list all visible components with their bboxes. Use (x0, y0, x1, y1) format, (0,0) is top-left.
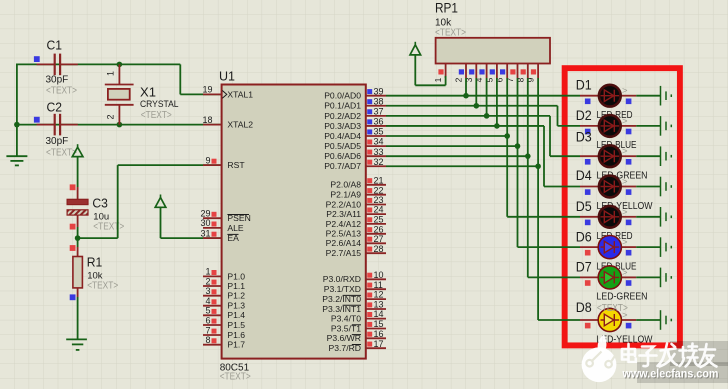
U1 pin 16 (P3.6/WR) (327, 329, 386, 343)
U1 pin 37 (P0.2/AD2) (324, 106, 386, 120)
svg-text:P3.4/T0: P3.4/T0 (331, 314, 361, 324)
U1 pin 36 (P0.3/AD3) (324, 117, 386, 131)
svg-text:P0.6/AD6: P0.6/AD6 (324, 151, 361, 161)
svg-text:X1: X1 (140, 86, 156, 100)
RP1 pin 9 (526, 64, 539, 83)
wire RST net: chip to junction (78, 165, 222, 238)
watermark text dian zi fa shao you (622, 344, 717, 368)
U1 pin 39 (P0.0/AD0) (324, 86, 386, 100)
node RP1-P0.6 junction (525, 153, 531, 159)
microcontroller U1 (80C51) body (222, 85, 366, 359)
power terminal (VCC arrow) at RP1 pin1 (410, 42, 446, 86)
svg-text:<TEXT>: <TEXT> (87, 281, 118, 292)
U1 pin 23 (P2.2/A10) (326, 195, 386, 209)
U1 pin 35 (P0.4/AD4) (324, 127, 386, 141)
svg-text:17: 17 (374, 339, 384, 349)
power terminal (VCC arrow) at EA (155, 195, 221, 239)
U1 pin 7 (P1.6) (203, 325, 245, 340)
ground (below R1) (66, 339, 87, 350)
ground (right of D1) (661, 86, 672, 106)
svg-text:29: 29 (200, 209, 210, 219)
svg-text:30pF: 30pF (46, 75, 69, 86)
svg-text:C1: C1 (47, 39, 63, 53)
U1 pin 25 (P2.4/A12) (326, 215, 386, 229)
svg-text:<TEXT>: <TEXT> (435, 28, 466, 39)
node RP1-P0.5 junction (515, 143, 521, 149)
node left rail C2 junction (14, 122, 20, 128)
wire D2 cathode to ground (636, 125, 660, 127)
svg-text:P2.5/A13: P2.5/A13 (326, 229, 362, 239)
svg-text:P1.0: P1.0 (227, 271, 245, 281)
ground (right of D7) (661, 268, 672, 288)
wire RP1 pin 2 vertical (465, 78, 467, 96)
capacitor C1 (34, 39, 78, 97)
ground (right of D2) (661, 116, 672, 136)
svg-text:26: 26 (374, 224, 384, 234)
svg-text:R1: R1 (87, 256, 103, 270)
wire P0.2 drop to D3 (549, 116, 551, 156)
svg-text:P0.0/AD0: P0.0/AD0 (324, 91, 361, 101)
svg-text:15: 15 (374, 319, 384, 329)
svg-text:>: > (622, 146, 628, 157)
svg-text:16: 16 (374, 329, 384, 339)
ground (right of D4) (661, 177, 672, 197)
svg-text:<TEXT>: <TEXT> (141, 110, 172, 121)
node RP1-P0.4 junction (504, 133, 510, 139)
U1 pin 3 (P1.2) (203, 286, 245, 301)
wire to LED D6 (518, 246, 581, 248)
svg-text:36: 36 (374, 117, 384, 127)
RP1 pin 4 (474, 64, 487, 83)
svg-text:3: 3 (205, 286, 210, 296)
wire RP1 pin 3 vertical (475, 78, 477, 106)
svg-text:P1.6: P1.6 (227, 330, 245, 340)
U1 pin 10 (P3.0/RXD) (323, 270, 386, 284)
svg-text:7: 7 (205, 325, 210, 335)
wire RP1 pin 5 vertical (496, 78, 498, 126)
svg-text:2: 2 (106, 114, 116, 119)
node RP1-P0.2 junction (484, 113, 490, 119)
RP1 pin 8 (515, 64, 528, 83)
svg-text:CRYSTAL: CRYSTAL (140, 99, 179, 110)
led D3 (LED-GREEN) (576, 129, 648, 181)
svg-text:P2.1/A9: P2.1/A9 (330, 190, 361, 200)
svg-text:RST: RST (227, 160, 245, 170)
RP1 pin 2 (454, 64, 467, 83)
svg-text:8: 8 (205, 335, 210, 345)
ground (right of D5) (661, 207, 672, 227)
U1 pin 13 (P3.3/INT1) (322, 300, 386, 314)
svg-text:P1.3: P1.3 (227, 301, 245, 311)
svg-text:D4: D4 (576, 168, 592, 183)
node RP1-P0.1 junction (474, 103, 480, 109)
svg-text:D6: D6 (576, 229, 592, 244)
wire C3 to R1 node (77, 227, 79, 247)
svg-text:P1.4: P1.4 (227, 310, 245, 320)
led D7 (LED-GREEN) (576, 260, 648, 303)
svg-text:25: 25 (374, 215, 384, 225)
svg-text:>: > (622, 207, 628, 218)
svg-text:35: 35 (374, 127, 384, 137)
svg-text:2: 2 (454, 77, 464, 82)
U1 pin 19 (XTAL1) (202, 85, 253, 100)
node RP1-P0.7 junction (535, 163, 541, 169)
U1 pin 9 (RST) (203, 155, 245, 170)
led D1 (LED-RED) (576, 78, 637, 122)
wire RP1 pin 8 vertical (527, 78, 529, 277)
svg-text:P0.3/AD3: P0.3/AD3 (324, 121, 361, 131)
led D2 (LED-BLUE) (576, 108, 637, 151)
power terminal (VCC arrow) above C3 (72, 144, 83, 187)
ground (right of D6) (661, 237, 672, 257)
wire P0.1 drop to D2 (557, 106, 559, 126)
wire RP1 pin 7 vertical (517, 78, 519, 247)
svg-text:30: 30 (200, 218, 210, 228)
U1 pin 38 (P0.1/AD1) (324, 96, 386, 110)
svg-text:XTAL1: XTAL1 (227, 89, 253, 99)
svg-text:30pF: 30pF (46, 136, 69, 147)
led D6 (LED-BLUE) (576, 229, 637, 272)
svg-text:28: 28 (374, 244, 384, 254)
svg-text:>: > (622, 177, 628, 188)
svg-text:C3: C3 (92, 197, 108, 211)
ground (left rail) (6, 156, 27, 165)
svg-text:D1: D1 (576, 78, 592, 93)
U1 pin 32 (P0.7/AD7) (324, 157, 386, 171)
svg-text:C2: C2 (47, 101, 63, 115)
svg-text:www.elecfans.com: www.elecfans.com (622, 367, 719, 381)
svg-text:D8: D8 (576, 300, 592, 315)
wire P0.5 row (386, 145, 518, 147)
svg-text:33: 33 (374, 147, 384, 157)
svg-text:38: 38 (374, 96, 384, 106)
svg-text:11: 11 (374, 280, 383, 290)
wire C1 row / crystal pin1 net (16, 63, 180, 65)
RP1 pin 1 (433, 64, 446, 83)
svg-text:P2.6/A14: P2.6/A14 (326, 238, 362, 248)
svg-text:>: > (622, 86, 628, 97)
wire P0.0 row (386, 95, 580, 97)
svg-text:P1.1: P1.1 (227, 281, 245, 291)
svg-text:14: 14 (374, 309, 384, 319)
svg-text:<TEXT>: <TEXT> (220, 372, 251, 383)
U1 pin 26 (P2.5/A13) (326, 224, 386, 238)
svg-text:XTAL2: XTAL2 (227, 120, 253, 130)
U1 pin 31 (EA) (200, 228, 239, 243)
U1 pin 28 (P2.7/A15) (326, 244, 386, 258)
U1 pin 12 (P3.2/INT0) (322, 290, 386, 304)
svg-text:<TEXT>: <TEXT> (93, 222, 124, 233)
svg-text:39: 39 (374, 86, 384, 96)
U1 pin 4 (P1.3) (203, 296, 245, 311)
svg-text:RP1: RP1 (435, 1, 458, 16)
wire P0.4 row (386, 135, 507, 137)
svg-text:5: 5 (205, 306, 210, 316)
wire RP1 pin 4 vertical (486, 78, 488, 116)
svg-text:2: 2 (205, 276, 210, 286)
RP1 pin 5 (484, 64, 497, 83)
wire left rail vertical (16, 64, 18, 156)
RP1 pin 6 (495, 64, 508, 83)
svg-text:19: 19 (202, 85, 212, 95)
svg-text:P3.0/RXD: P3.0/RXD (323, 274, 361, 284)
svg-text:12: 12 (374, 290, 384, 300)
node crystal pin 2 junction (117, 122, 123, 128)
wire D4 cathode to ground (636, 186, 660, 188)
wire P0.7 row (386, 165, 538, 167)
svg-text:P1.2: P1.2 (227, 291, 245, 301)
U1 pin 18 (XTAL2) (202, 115, 253, 130)
svg-text:>: > (622, 267, 628, 278)
svg-text:U1: U1 (219, 70, 235, 84)
wire D7 cathode to ground (636, 276, 660, 278)
node C3/R1/RST junction (75, 235, 81, 241)
wire C2 row / XTAL2 net (16, 124, 222, 126)
svg-text:32: 32 (374, 157, 384, 167)
U1 pin 21 (P2.0/A8) (330, 175, 386, 189)
U1 pin 27 (P2.6/A14) (326, 234, 386, 248)
svg-text:P0.7/AD7: P0.7/AD7 (324, 161, 361, 171)
svg-text:D7: D7 (576, 260, 592, 275)
svg-text:9: 9 (205, 155, 210, 165)
U1 pin 5 (P1.4) (203, 306, 245, 321)
wire RP1 pin 9 vertical (537, 78, 539, 320)
svg-text:22: 22 (374, 185, 384, 195)
svg-text:P2.7/A15: P2.7/A15 (326, 248, 362, 258)
U1 pin 1 (P1.0) (203, 267, 245, 282)
RP1 pin 3 (464, 64, 477, 83)
wire P0.3 drop to D4 (543, 126, 545, 187)
wire D8 cathode to ground (636, 319, 660, 321)
U1 pin 24 (P2.3/A11) (326, 205, 386, 219)
XTAL1 clock input marker (222, 91, 227, 99)
svg-text:P3.1/TXD: P3.1/TXD (324, 284, 361, 294)
svg-text:31: 31 (200, 228, 210, 238)
svg-text:P0.1/AD1: P0.1/AD1 (324, 101, 361, 111)
wire into XTAL1 pin (180, 93, 221, 95)
ground (right of D3) (661, 146, 672, 166)
svg-text:<TEXT>: <TEXT> (597, 303, 628, 314)
svg-text:P2.0/A8: P2.0/A8 (330, 180, 361, 190)
wire to LED D8 (538, 319, 580, 321)
svg-text:21: 21 (374, 175, 384, 185)
crystal X1 (105, 64, 179, 124)
svg-text:6: 6 (205, 315, 210, 325)
svg-text:<TEXT>: <TEXT> (46, 86, 77, 97)
U1 pin 14 (P3.4/T0) (331, 309, 386, 323)
wire crystal-top to XTAL1 vertical (179, 64, 181, 94)
wire to LED D5 (507, 216, 580, 218)
wire D6 cathode to ground (636, 246, 660, 248)
svg-text:P2.3/A11: P2.3/A11 (326, 209, 361, 219)
red highlight rectangle around LEDs (565, 68, 680, 345)
svg-text:P1.7: P1.7 (227, 340, 245, 350)
svg-text:D5: D5 (576, 199, 592, 214)
resistor R1 (70, 245, 119, 300)
svg-text:13: 13 (374, 300, 384, 310)
wire P0.6 row (386, 155, 528, 157)
wire P0.2 row (386, 115, 550, 117)
svg-text:P2.4/A12: P2.4/A12 (326, 219, 362, 229)
watermark elecfans logo disc (582, 335, 617, 383)
U1 pin 34 (P0.5/AD5) (324, 137, 386, 151)
wire R1 to ground (77, 297, 79, 339)
U1 pin 29 (PSEN) (200, 209, 250, 224)
wire P0.1 row (386, 105, 558, 107)
wire D5 cathode to ground (636, 216, 660, 218)
svg-text:4: 4 (205, 296, 210, 306)
U1 pin 8 (P1.7) (203, 335, 245, 350)
svg-text:18: 18 (202, 115, 212, 125)
svg-text:D3: D3 (576, 129, 592, 144)
svg-text:27: 27 (374, 234, 384, 244)
svg-text:>: > (622, 237, 628, 248)
node crystal pin 1 junction (117, 62, 123, 68)
svg-text:P0.2/AD2: P0.2/AD2 (324, 111, 361, 121)
wire D3 cathode to ground (636, 155, 660, 157)
capacitor C3 (67, 184, 124, 232)
led D5 (LED-RED) (576, 199, 637, 242)
U1 pin 33 (P0.6/AD6) (324, 147, 386, 161)
svg-text:P1.5: P1.5 (227, 320, 245, 330)
watermark shadow boxes (670, 341, 728, 366)
RP1 pin 7 (505, 64, 518, 83)
U1 pin 6 (P1.5) (203, 315, 245, 330)
U1 pin 30 (ALE) (200, 218, 243, 233)
resistor pack RP1 body (436, 38, 550, 64)
U1 pin 15 (P3.5/T1) (331, 319, 386, 333)
U1 pin 11 (P3.1/TXD) (324, 280, 386, 294)
svg-text:P0.5/AD5: P0.5/AD5 (324, 141, 361, 151)
wire D1 cathode to ground (636, 95, 660, 97)
svg-text:23: 23 (374, 195, 384, 205)
U1 pin 17 (P3.7/RD) (329, 339, 386, 353)
capacitor C2 (34, 101, 78, 159)
led D8 (LED-YELLOW) (576, 300, 653, 345)
U1 pin 22 (P2.1/A9) (330, 185, 386, 199)
svg-text:P0.4/AD4: P0.4/AD4 (324, 131, 361, 141)
svg-text:10: 10 (374, 270, 384, 280)
wire P0.3 row (386, 125, 544, 127)
svg-text:LED-GREEN: LED-GREEN (597, 292, 648, 303)
led D4 (LED-YELLOW) (576, 168, 653, 212)
svg-text:37: 37 (374, 106, 384, 116)
wire RP1 pin 6 vertical (506, 78, 508, 217)
ground (right of D8) (661, 310, 672, 330)
svg-text:ALE: ALE (227, 223, 244, 233)
svg-text:1: 1 (433, 77, 443, 82)
wire to LED D7 (528, 276, 580, 278)
svg-text:D2: D2 (576, 108, 592, 123)
svg-text:1: 1 (106, 71, 116, 76)
node RP1-P0.3 junction (494, 123, 500, 129)
svg-text:1: 1 (205, 267, 210, 277)
U1 pin 2 (P1.1) (203, 276, 245, 291)
node RP1-P0.0 junction (463, 93, 469, 99)
svg-text:>: > (622, 116, 628, 127)
svg-text:P2.2/A10: P2.2/A10 (326, 199, 362, 209)
svg-text:24: 24 (374, 205, 384, 215)
svg-text:34: 34 (374, 137, 384, 147)
